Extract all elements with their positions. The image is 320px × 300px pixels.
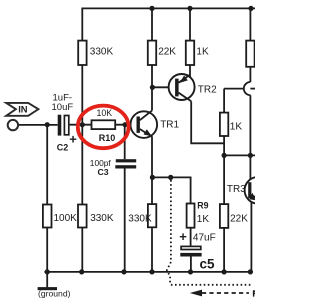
svg-text:+: + <box>179 229 187 244</box>
svg-text:22K: 22K <box>158 46 176 57</box>
svg-text:330K: 330K <box>128 213 152 224</box>
svg-text:330K: 330K <box>90 46 114 57</box>
svg-text:c5: c5 <box>200 257 216 272</box>
svg-text:(ground): (ground) <box>38 288 71 298</box>
svg-text:R10: R10 <box>99 133 116 143</box>
svg-text:TR2: TR2 <box>198 85 217 96</box>
svg-text:TR3: TR3 <box>227 184 246 195</box>
svg-text:R9: R9 <box>197 200 208 210</box>
svg-text:C3: C3 <box>98 167 109 177</box>
svg-text:47uF: 47uF <box>193 233 216 244</box>
svg-text:22K: 22K <box>230 213 248 224</box>
svg-text:100K: 100K <box>54 213 78 224</box>
svg-text:10K: 10K <box>97 108 113 118</box>
svg-text:IN: IN <box>18 104 28 115</box>
svg-text:1K: 1K <box>197 214 210 225</box>
svg-text:1K: 1K <box>230 121 243 132</box>
svg-text:10uF: 10uF <box>52 102 74 113</box>
svg-text:TR1: TR1 <box>160 120 179 131</box>
svg-text:C2: C2 <box>57 142 69 152</box>
svg-text:330K: 330K <box>90 213 114 224</box>
svg-text:1K: 1K <box>196 46 209 57</box>
svg-text:+: + <box>69 132 77 147</box>
